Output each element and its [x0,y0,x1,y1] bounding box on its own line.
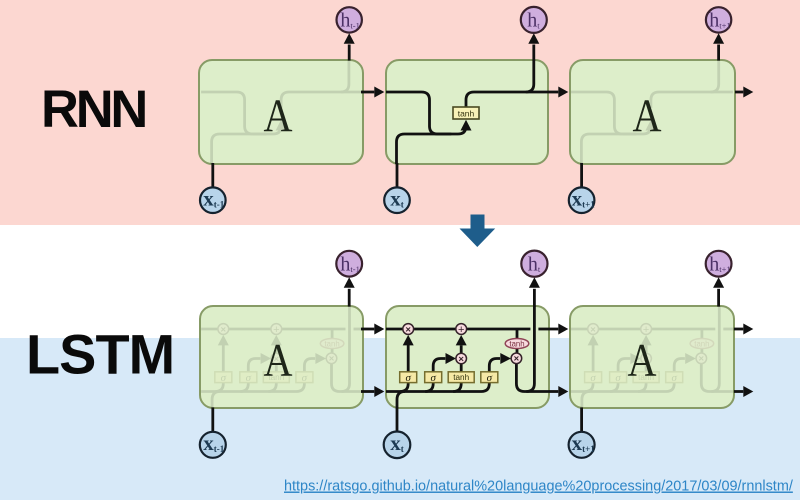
svg-text:RNN: RNN [41,80,145,139]
svg-text:LSTM: LSTM [26,323,174,386]
node RNN x t [384,187,410,214]
node LSTM h t [521,251,547,277]
wire LSTM A3 hidden state output [734,386,753,397]
ghost internals in RNN box A3 [571,60,733,164]
ghost internals in LSTM box A3 [571,306,734,408]
wire LSTM x t+1 input [580,408,583,433]
wire RNN A1 to A2 [361,87,384,98]
wire RNN x t-1 input [211,163,214,188]
wire RNN x t+1 input [580,163,583,188]
node LSTM h t-1 [336,251,362,277]
wire LSTM h t output arrow [529,277,540,306]
svg-text:A: A [628,335,657,387]
ghost internals in RNN box A1 [201,60,363,164]
svg-text:A: A [264,335,293,387]
LSTM cell box A2 (gated detail) [386,306,549,408]
node LSTM x t-1 [200,431,226,458]
LSTM cell box A3 [570,306,734,408]
wire RNN A2 to A3 [548,87,568,98]
svg-text:A: A [633,90,662,142]
node RNN h t [521,7,547,33]
wire LSTM A1 to A2 hidden state [361,386,384,397]
wire RNN h t output arrow [528,33,539,60]
wire RNN h t-1 output arrow [344,33,355,60]
node RNN h t-1 [337,7,362,32]
pink background band (RNN section) [0,0,800,225]
LSTM middle box internals with gates [386,306,549,408]
node RNN h t+1 [706,7,731,32]
wire RNN h t+1 output arrow [713,33,724,60]
node RNN x t-1 [200,187,226,214]
RNN middle box internals with tanh gate [386,60,548,164]
wire RNN A3 output [735,87,753,98]
node RNN x t+1 [569,187,595,214]
RNN cell box A1 [199,60,363,164]
wire LSTM x t input [396,408,399,433]
wire LSTM A1 to A2 cell state [361,324,384,335]
LSTM cell box A1 [200,306,363,408]
wire LSTM A3 cell state output [734,324,753,335]
node LSTM x t [384,431,411,458]
RNN cell box A3 [570,60,735,164]
wire LSTM x t-1 input [211,408,214,433]
wire RNN x t input [396,163,399,188]
blue background band (LSTM section) [0,338,800,500]
big down arrow between sections [460,215,496,248]
wire LSTM h t+1 output arrow [713,277,724,306]
svg-text:https://ratsgo.github.io/natur: https://ratsgo.github.io/natural%20langu… [284,479,794,495]
wire LSTM A2 to A3 hidden state [549,386,568,397]
wire LSTM h t-1 output arrow [344,277,355,306]
svg-text:A: A [264,90,293,142]
node LSTM x t+1 [569,431,596,458]
RNN cell box A2 (unrolled detail) [386,60,548,164]
ghost internals in LSTM box A1 [201,306,364,408]
node LSTM h t+1 [706,251,732,277]
wire LSTM A2 to A3 cell state [549,324,568,335]
